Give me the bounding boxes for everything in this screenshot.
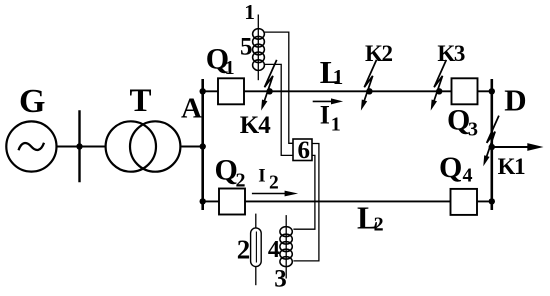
svg-text:K4: K4 bbox=[240, 112, 271, 139]
junction dot A-L2 bbox=[200, 198, 206, 204]
generator G bbox=[6, 121, 56, 171]
label Q1 bbox=[206, 43, 235, 80]
svg-text:2: 2 bbox=[374, 214, 384, 236]
svg-text:I: I bbox=[258, 165, 265, 186]
wire filter 6 to coil 4 bottom bbox=[293, 144, 319, 261]
svg-text:3: 3 bbox=[274, 265, 287, 292]
junction dot D-L2 bbox=[489, 198, 495, 204]
svg-text:1: 1 bbox=[225, 57, 235, 79]
line L1 wire Q3 to D bbox=[476, 90, 492, 92]
line L1 wire Q1 to Q3 bbox=[242, 90, 453, 92]
label Q2 bbox=[215, 154, 246, 192]
line trap coil 5 bbox=[253, 29, 265, 71]
line L1 wire A to Q1 bbox=[203, 90, 220, 92]
svg-text:G: G bbox=[19, 83, 45, 120]
fault K2 bbox=[361, 60, 377, 111]
load arrow at D bbox=[492, 143, 544, 151]
label Q4 bbox=[439, 151, 473, 186]
svg-text:2: 2 bbox=[237, 235, 251, 265]
junction dot K3 bbox=[436, 88, 442, 94]
svg-text:Q: Q bbox=[447, 103, 470, 136]
svg-text:1: 1 bbox=[244, 0, 255, 24]
svg-text:T: T bbox=[130, 83, 152, 119]
svg-text:K3: K3 bbox=[437, 41, 464, 66]
transformer T bbox=[106, 121, 181, 171]
junction dot K2 bbox=[366, 88, 372, 94]
current arrow I1 bbox=[313, 98, 343, 104]
svg-text:4: 4 bbox=[463, 164, 473, 186]
label L2 bbox=[357, 199, 384, 235]
coupling coil 4 bbox=[280, 215, 292, 278]
svg-text:4: 4 bbox=[268, 237, 280, 263]
svg-text:1: 1 bbox=[331, 114, 341, 136]
junction dot D-L1 bbox=[489, 88, 495, 94]
bus A bbox=[201, 79, 204, 210]
current arrow I2 bbox=[252, 191, 298, 197]
line L2 wire Q2 to Q4 bbox=[243, 200, 452, 202]
wire G to bus bbox=[58, 146, 105, 148]
label I1 bbox=[320, 100, 341, 135]
svg-text:5: 5 bbox=[240, 34, 253, 61]
breaker Q4 bbox=[451, 189, 478, 215]
line L2 wire A to Q2 bbox=[203, 200, 221, 202]
svg-text:K2: K2 bbox=[365, 41, 392, 66]
svg-text:Q: Q bbox=[215, 154, 238, 187]
label I2 bbox=[258, 165, 279, 193]
svg-text:D: D bbox=[504, 83, 526, 118]
bus D bbox=[490, 79, 493, 210]
label L1 bbox=[320, 54, 344, 90]
junction dot A-T bbox=[200, 143, 206, 149]
svg-text:I: I bbox=[320, 100, 330, 129]
svg-text:2: 2 bbox=[269, 172, 279, 193]
fault K1 bbox=[483, 116, 499, 167]
junction dot G-T bus bbox=[76, 143, 82, 149]
wire coil5 top tap to filter 6 bbox=[265, 32, 293, 143]
coupling filter 6 bbox=[293, 139, 312, 161]
wire coil5 bottom tap to filter 6 bbox=[265, 64, 293, 155]
breaker Q1 bbox=[218, 78, 244, 104]
line L2 wire Q4 to D bbox=[475, 200, 492, 202]
junction dot K4 bbox=[266, 88, 272, 94]
fault K3 bbox=[431, 60, 447, 111]
junction dot D load tap bbox=[489, 144, 495, 150]
wire filter 6 to coil 4 top bbox=[293, 155, 315, 229]
svg-text:2: 2 bbox=[236, 169, 246, 191]
svg-text:3: 3 bbox=[468, 118, 478, 140]
label Q3 bbox=[447, 103, 478, 140]
fault K4 bbox=[261, 60, 277, 111]
bus between G and T bbox=[78, 110, 80, 182]
svg-text:6: 6 bbox=[297, 137, 310, 164]
svg-text:Q: Q bbox=[439, 151, 462, 184]
terminal stub 1 (above line trap) bbox=[257, 15, 259, 81]
wire T to bus A bbox=[182, 146, 203, 148]
breaker Q3 bbox=[452, 78, 478, 104]
svg-text:1: 1 bbox=[333, 65, 344, 89]
svg-text:K1: K1 bbox=[498, 154, 525, 179]
svg-text:A: A bbox=[181, 93, 202, 125]
arrester 2 bbox=[251, 214, 262, 286]
junction dot A-L1 bbox=[200, 88, 206, 94]
breaker Q2 bbox=[219, 189, 245, 215]
